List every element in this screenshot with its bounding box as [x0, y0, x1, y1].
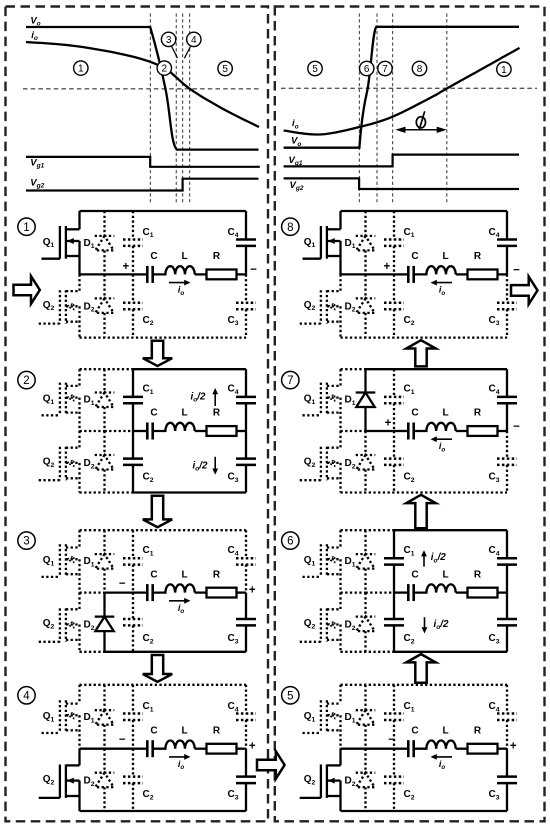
output current io arrow (state 7) [431, 436, 453, 453]
transistor Q2 (state 6, off) [300, 593, 341, 652]
top rail wire (state 3) [80, 529, 247, 531]
label io (left plot) [31, 30, 38, 42]
label C (state 4) [150, 725, 157, 736]
inductor L (state 8) [414, 266, 456, 274]
label R (state 1) [213, 251, 221, 262]
label Q1 (state 2) [43, 394, 55, 406]
interval circle 1 (left plot) [74, 61, 88, 75]
label C3 (state 7) [488, 472, 499, 484]
bottom rail wire (state 1) [80, 336, 247, 338]
label C4 (state 7) [488, 384, 499, 396]
capacitor C2 (state 5) [384, 749, 404, 811]
transistor Q2 (state 8, off) [300, 274, 341, 337]
series capacitor C (state 5) [394, 740, 414, 757]
state number circle 8 [282, 218, 299, 235]
diode D1 (state 2, off) [95, 369, 115, 431]
svg-text:L: L [442, 569, 448, 580]
transistor Q2 (state 7, off) [300, 431, 341, 493]
label R (state 7) [474, 408, 482, 419]
diode D2 (state 5, off) [356, 749, 376, 811]
capacitor C3 (state 3) [236, 593, 256, 652]
capacitor C1 (state 2) [123, 369, 143, 431]
svg-text:2: 2 [23, 375, 29, 387]
top rail wire (state 8) [341, 210, 508, 212]
label R (state 8) [474, 251, 482, 262]
label C (state 3) [150, 569, 157, 580]
output current io arrow (state 8) [431, 280, 453, 297]
label D2 (state 1) [83, 301, 94, 313]
capacitor C1 (state 3) [123, 530, 143, 592]
transistor Q1 (state 5, off) [303, 685, 341, 749]
diode D2 (state 4, off) [95, 749, 115, 811]
label Q2 (state 6) [304, 618, 316, 630]
label C4 (state 3) [227, 545, 238, 557]
label R (state 3) [213, 569, 221, 580]
polarity sign - (state 1) [250, 264, 257, 276]
state number circle 2 [18, 371, 35, 388]
inductor L (state 4) [153, 741, 195, 749]
transistor Q1 (state 8, on) [303, 211, 341, 274]
top rail wire (state 6) [341, 529, 508, 531]
resistor R (state 7) [456, 426, 507, 436]
interval circle 7 (right plot) [378, 61, 392, 75]
label C2 (state 2) [142, 472, 153, 484]
series capacitor C (state 7) [394, 423, 414, 440]
label D1 (state 8) [344, 238, 355, 250]
current io/2 down arrow (state 6) [422, 617, 449, 633]
mid-node wire (state 5) [341, 748, 395, 750]
label L (state 2) [181, 408, 187, 419]
state number circle 6 [282, 532, 299, 549]
label C3 (state 2) [227, 472, 238, 484]
label C2 (state 7) [403, 472, 414, 484]
svg-text:R: R [213, 251, 221, 262]
right plot vertical dashed guide lines [359, 14, 446, 204]
label Vg1 (left plot) [30, 157, 44, 169]
label C4 (state 6) [488, 545, 499, 557]
label Q2 (state 1) [43, 300, 55, 312]
capacitor C3 (state 2) [236, 431, 256, 493]
state number circle 1 [18, 218, 35, 235]
label D2 (state 5) [344, 776, 355, 788]
capacitor C4 (state 5) [497, 685, 517, 749]
svg-text:+: + [510, 741, 517, 753]
label C4 (state 5) [488, 701, 499, 713]
svg-text:L: L [181, 725, 187, 736]
inductor L (state 1) [153, 266, 195, 274]
label Q1 (state 3) [43, 555, 55, 567]
capacitor C3 (state 7) [497, 431, 517, 493]
label C3 (state 6) [488, 633, 499, 645]
interval circle 3 with pointer (left plot) [161, 32, 177, 58]
inductor L (state 7) [414, 423, 456, 431]
bottom rail wire (state 4) [80, 810, 247, 812]
sequence arrow state 2 to 3 [143, 496, 172, 528]
output current io arrow (state 5) [431, 754, 453, 771]
label D2 (state 3) [83, 620, 94, 632]
svg-text:+: + [249, 741, 256, 753]
bottom rail wire (state 7) [341, 491, 508, 493]
right panel dashed border [275, 7, 545, 822]
label C1 (state 2) [142, 384, 153, 396]
capacitor C3 (state 4) [236, 749, 256, 811]
capacitor C1 (state 7) [384, 369, 404, 431]
label C1 (state 5) [403, 701, 414, 713]
label C4 (state 2) [227, 384, 238, 396]
label Q2 (state 4) [43, 774, 55, 786]
svg-text:L: L [442, 251, 448, 262]
current io/2 up arrow (state 2) [191, 388, 219, 406]
sequence arrow into state 1 [14, 276, 40, 304]
capacitor C1 (state 5) [384, 685, 404, 749]
left plot zero-axis dashed line [23, 88, 261, 90]
svg-text:C: C [150, 251, 157, 262]
waveform Vg2 (left plot) [26, 179, 259, 191]
waveform Vg2 (right plot) [284, 178, 519, 189]
svg-text:R: R [213, 569, 221, 580]
label phi [416, 111, 425, 130]
top rail wire (state 7) [341, 368, 508, 370]
bottom rail wire (state 5) [341, 810, 508, 812]
svg-text:−: − [119, 578, 126, 590]
polarity sign + (state 4) [249, 741, 256, 753]
right plot zero-axis dashed line [281, 87, 537, 89]
series capacitor C (state 1) [133, 266, 153, 283]
mid-node wire (state 8) [341, 273, 395, 275]
capacitor C3 (state 8) [497, 274, 517, 337]
capacitor C4 (state 2) [236, 369, 256, 431]
capacitor C3 (state 1) [236, 274, 256, 337]
label C4 (state 4) [227, 701, 238, 713]
interval circle 5 (left plot) [218, 61, 232, 75]
label C2 (state 5) [403, 789, 414, 801]
sequence arrow state 6 to 7 [406, 495, 435, 528]
label D1 (state 7) [344, 395, 355, 407]
label L (state 4) [181, 725, 187, 736]
svg-text:+: + [123, 261, 130, 273]
transistor Q1 (state 2, off) [42, 369, 80, 431]
label C1 (state 4) [142, 701, 153, 713]
capacitor C4 (state 8) [497, 211, 517, 274]
capacitor C2 (state 7) [384, 431, 404, 493]
label D1 (state 3) [83, 556, 94, 568]
sequence arrow state 1 to 2 [143, 341, 172, 366]
label Vg2 (right plot) [290, 180, 304, 192]
svg-text:L: L [442, 725, 448, 736]
waveform io (left plot) [26, 42, 259, 127]
capacitor C4 (state 4) [236, 685, 256, 749]
diode D2 (state 1, off) [95, 274, 115, 337]
polarity sign + (state 3) [249, 585, 256, 597]
svg-text:7: 7 [382, 64, 388, 75]
mid-node wire (state 2) [80, 430, 134, 432]
label R (state 6) [474, 569, 482, 580]
interval circle 4 with pointer (left plot) [184, 32, 201, 58]
interval circle 8 (right plot) [412, 61, 426, 75]
inductor L (state 3) [153, 584, 195, 592]
transistor Q2 (state 1, off) [39, 274, 80, 337]
waveform io (right plot) [284, 48, 520, 135]
label C (state 5) [411, 725, 418, 736]
svg-text:L: L [181, 251, 187, 262]
polarity sign + (state 1) [123, 261, 130, 273]
label Vg2 (left plot) [30, 177, 44, 189]
transistor Q2 (state 5, on) [300, 749, 341, 811]
label L (state 3) [181, 569, 187, 580]
capacitor C2 (state 4) [123, 749, 143, 811]
capacitor C4 (state 7) [497, 369, 517, 431]
polarity sign - (state 7) [513, 421, 520, 433]
left panel dashed border [6, 7, 269, 822]
waveform Vg1 (left plot) [26, 157, 260, 167]
resistor R (state 5) [456, 744, 507, 754]
label C1 (state 3) [142, 545, 153, 557]
series capacitor C (state 6) [394, 584, 414, 601]
svg-text:io/2: io/2 [431, 552, 446, 564]
mid-node wire (state 3) [80, 591, 134, 593]
current io/2 up arrow (state 6) [421, 550, 446, 567]
resistor R (state 3) [195, 588, 246, 598]
label Q1 (state 1) [43, 237, 55, 249]
capacitor C4 (state 1) [236, 211, 256, 274]
interval circle 5 (right plot) [308, 61, 322, 75]
transistor Q1 (state 7, off) [303, 369, 341, 431]
label Q2 (state 8) [304, 300, 316, 312]
svg-text:4: 4 [191, 35, 197, 46]
diode D1 (state 8, off) [356, 211, 376, 274]
svg-text:R: R [474, 725, 482, 736]
svg-text:4: 4 [23, 690, 30, 702]
label C (state 8) [411, 251, 418, 262]
label D2 (state 2) [83, 458, 94, 470]
mid-node wire (state 7) [341, 430, 395, 432]
capacitor C2 (state 1) [123, 274, 143, 337]
label D2 (state 4) [83, 776, 94, 788]
waveform Vg1 (right plot) [284, 155, 519, 167]
transistor Q2 (state 4, on) [39, 749, 80, 811]
resistor R (state 6) [456, 588, 507, 598]
diode D2 (state 2, off) [95, 431, 115, 493]
label C (state 6) [411, 569, 418, 580]
state number circle 4 [18, 687, 35, 704]
interval circle 6 (right plot) [360, 61, 374, 75]
svg-text:R: R [213, 408, 221, 419]
label C2 (state 4) [142, 789, 153, 801]
label C3 (state 5) [488, 789, 499, 801]
capacitor C2 (state 3) [123, 593, 143, 652]
bottom rail wire (state 6) [341, 651, 508, 653]
svg-text:1: 1 [501, 65, 507, 76]
label C1 (state 7) [403, 384, 414, 396]
svg-text:1: 1 [78, 64, 84, 75]
svg-text:+: + [249, 585, 256, 597]
inductor L (state 2) [153, 423, 195, 431]
svg-text:L: L [442, 408, 448, 419]
transistor Q2 (state 3, off) [39, 593, 80, 652]
diode D2 (state 6, off) [356, 593, 376, 652]
svg-text:2: 2 [162, 64, 168, 75]
svg-text:−: − [119, 734, 126, 746]
svg-text:3: 3 [23, 536, 29, 548]
svg-text:6: 6 [364, 64, 370, 75]
polarity sign + (state 7) [385, 417, 392, 429]
bottom rail wire (state 8) [341, 336, 508, 338]
svg-text:io/2: io/2 [193, 460, 208, 472]
label R (state 5) [474, 725, 482, 736]
capacitor C2 (state 2) [123, 431, 143, 493]
svg-text:C: C [411, 408, 418, 419]
capacitor C2 (state 6) [384, 593, 404, 652]
diode D2 (state 7, off) [356, 431, 376, 493]
label L (state 8) [442, 251, 448, 262]
label Q1 (state 4) [43, 711, 55, 723]
waveform Vo (right plot) [284, 27, 519, 148]
current io/2 down arrow (state 2) [193, 457, 219, 475]
sequence arrow state 4 to 5 [257, 751, 285, 779]
label L (state 7) [442, 408, 448, 419]
output current io arrow (state 4) [169, 754, 191, 771]
series capacitor C (state 4) [133, 740, 153, 757]
label C2 (state 1) [142, 315, 153, 327]
label L (state 5) [442, 725, 448, 736]
capacitor C3 (state 6) [497, 593, 517, 652]
top rail wire (state 4) [80, 684, 247, 686]
diode D2 (state 3, conducting) [95, 593, 115, 652]
label C2 (state 6) [403, 633, 414, 645]
label D1 (state 2) [83, 395, 94, 407]
mid-node wire (state 4) [80, 748, 134, 750]
transistor Q1 (state 4, off) [42, 685, 80, 749]
svg-text:io/2: io/2 [434, 619, 449, 631]
label Q2 (state 2) [43, 457, 55, 469]
capacitor C1 (state 4) [123, 685, 143, 749]
label C (state 1) [150, 251, 157, 262]
label C1 (state 6) [403, 545, 414, 557]
polarity sign - (state 3) [119, 578, 126, 590]
label Vg1 (right plot) [289, 155, 303, 167]
diode D1 (state 1, off) [95, 211, 115, 274]
output current io arrow (state 3) [169, 598, 191, 615]
series capacitor C (state 3) [133, 584, 153, 601]
state number circle 3 [18, 532, 35, 549]
left plot vertical dashed guide lines [150, 14, 189, 204]
label Q2 (state 7) [304, 457, 316, 469]
transistor Q1 (state 1, on) [42, 211, 80, 274]
label R (state 2) [213, 408, 221, 419]
sequence arrow out of state 8 [511, 277, 538, 305]
state number circle 5 [282, 687, 299, 704]
svg-text:−: − [513, 421, 520, 433]
diode D1 (state 5, off) [356, 685, 376, 749]
sequence arrow state 3 to 4 [143, 655, 172, 682]
label C2 (state 3) [142, 633, 153, 645]
label L (state 6) [442, 569, 448, 580]
transistor Q1 (state 3, off) [42, 530, 80, 592]
svg-text:−: − [513, 264, 520, 276]
capacitor C1 (state 8) [384, 211, 404, 274]
svg-text:3: 3 [166, 35, 172, 46]
top rail wire (state 1) [80, 210, 247, 212]
svg-text:5: 5 [222, 64, 228, 75]
svg-text:6: 6 [287, 536, 293, 548]
svg-text:C: C [150, 725, 157, 736]
svg-text:L: L [181, 569, 187, 580]
top rail wire (state 5) [341, 684, 508, 686]
svg-text:−: − [388, 734, 395, 746]
diode D2 (state 8, off) [356, 274, 376, 337]
label C3 (state 3) [227, 633, 238, 645]
svg-text:R: R [474, 569, 482, 580]
diode D1 (state 7, conducting) [356, 369, 376, 431]
bottom rail wire (state 3) [80, 651, 247, 653]
label D1 (state 4) [83, 712, 94, 724]
svg-text:R: R [474, 251, 482, 262]
state number circle 7 [282, 371, 299, 388]
polarity sign + (state 8) [384, 261, 391, 273]
label C3 (state 8) [488, 315, 499, 327]
capacitor C1 (state 1) [123, 211, 143, 274]
label C4 (state 1) [227, 227, 238, 239]
label D1 (state 1) [83, 238, 94, 250]
label Vo (right plot) [291, 136, 301, 148]
label C (state 7) [411, 408, 418, 419]
label C2 (state 8) [403, 315, 414, 327]
series capacitor C (state 2) [133, 423, 153, 440]
label C4 (state 8) [488, 227, 499, 239]
label D1 (state 6) [344, 556, 355, 568]
mid-node wire (state 1) [80, 273, 134, 275]
top rail wire (state 2) [80, 368, 247, 370]
label D2 (state 8) [344, 301, 355, 313]
transistor Q1 (state 6, off) [303, 530, 341, 592]
resistor R (state 2) [195, 426, 246, 436]
svg-text:C: C [411, 569, 418, 580]
svg-text:8: 8 [287, 222, 293, 234]
capacitor C2 (state 8) [384, 274, 404, 337]
polarity sign + (state 5) [510, 741, 517, 753]
label D2 (state 6) [344, 620, 355, 632]
resistor R (state 8) [456, 270, 507, 280]
resistor R (state 1) [195, 270, 246, 280]
capacitor C4 (state 6) [497, 530, 517, 592]
bottom rail wire (state 2) [80, 491, 247, 493]
label C1 (state 1) [142, 227, 153, 239]
svg-text:+: + [385, 417, 392, 429]
svg-text:+: + [384, 261, 391, 273]
polarity sign - (state 4) [119, 734, 126, 746]
svg-text:C: C [411, 725, 418, 736]
label D1 (state 5) [344, 712, 355, 724]
resistor R (state 4) [195, 744, 246, 754]
polarity sign - (state 5) [388, 734, 395, 746]
label io (right plot) [292, 118, 299, 130]
waveform Vo (left plot) [26, 27, 259, 150]
svg-text:1: 1 [23, 222, 29, 234]
svg-text:8: 8 [417, 64, 423, 75]
svg-text:5: 5 [287, 690, 293, 702]
series capacitor C (state 8) [394, 266, 414, 283]
label Q2 (state 5) [304, 774, 316, 786]
interval circle 1 (right plot) [497, 62, 511, 76]
capacitor C3 (state 5) [497, 749, 517, 811]
inductor L (state 6) [414, 584, 456, 592]
label Q2 (state 3) [43, 618, 55, 630]
label Q1 (state 7) [304, 394, 316, 406]
label Q1 (state 6) [304, 555, 316, 567]
label D2 (state 7) [344, 458, 355, 470]
svg-text:C: C [150, 569, 157, 580]
label L (state 1) [181, 251, 187, 262]
